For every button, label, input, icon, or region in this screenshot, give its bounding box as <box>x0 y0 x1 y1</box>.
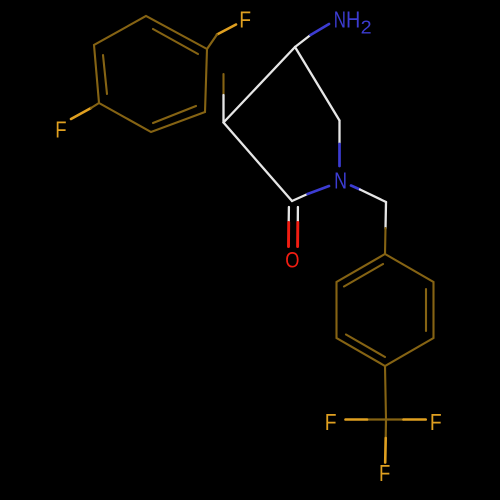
svg-text:N: N <box>334 167 347 193</box>
svg-text:F: F <box>325 409 337 435</box>
bond F1 to ring1 (bright half near label) <box>217 25 236 35</box>
svg-text:F: F <box>55 117 66 143</box>
bond N1 to benzyl CH2 <box>351 186 360 190</box>
carbonyl C2=O double bond (red oxygen halves) <box>287 222 290 246</box>
wire C5 to C6 (long straight) <box>295 47 340 121</box>
wire C4 to C5 (long straight) <box>224 47 296 123</box>
svg-text:N: N <box>334 6 346 32</box>
bond C5 to NH2 <box>295 35 311 47</box>
wire W1 vertical ring1-area down to C4 <box>222 74 224 95</box>
bond ring2 to CF3 carbon <box>385 366 386 420</box>
bond F2 to ring1 (bright half near label) <box>71 108 91 119</box>
svg-text:O: O <box>285 248 299 273</box>
svg-text:F: F <box>379 460 390 486</box>
wire C4 to carbonyl C2 (long straight) <box>224 123 293 202</box>
carbonyl C2=O double bond (white carbon halves) <box>288 207 290 222</box>
CF3 bond to bottom F <box>385 420 387 439</box>
svg-text:F: F <box>430 409 442 435</box>
CF3 bond to left F (dark carbon half, bright F half) <box>367 418 386 420</box>
wire benzyl CH2 down to ring2 top <box>384 202 387 229</box>
svg-text:H: H <box>346 6 360 32</box>
svg-text:F: F <box>239 7 251 33</box>
svg-text:2: 2 <box>361 18 372 38</box>
ring1: 2,5-difluorophenyl benzene ring <box>94 16 207 132</box>
bond C2 to N1 <box>292 194 308 201</box>
ring2: 4-CF3 benzene ring <box>337 254 434 366</box>
bond C6 to N1 <box>338 121 340 145</box>
CF3 bond to right F <box>386 418 404 420</box>
